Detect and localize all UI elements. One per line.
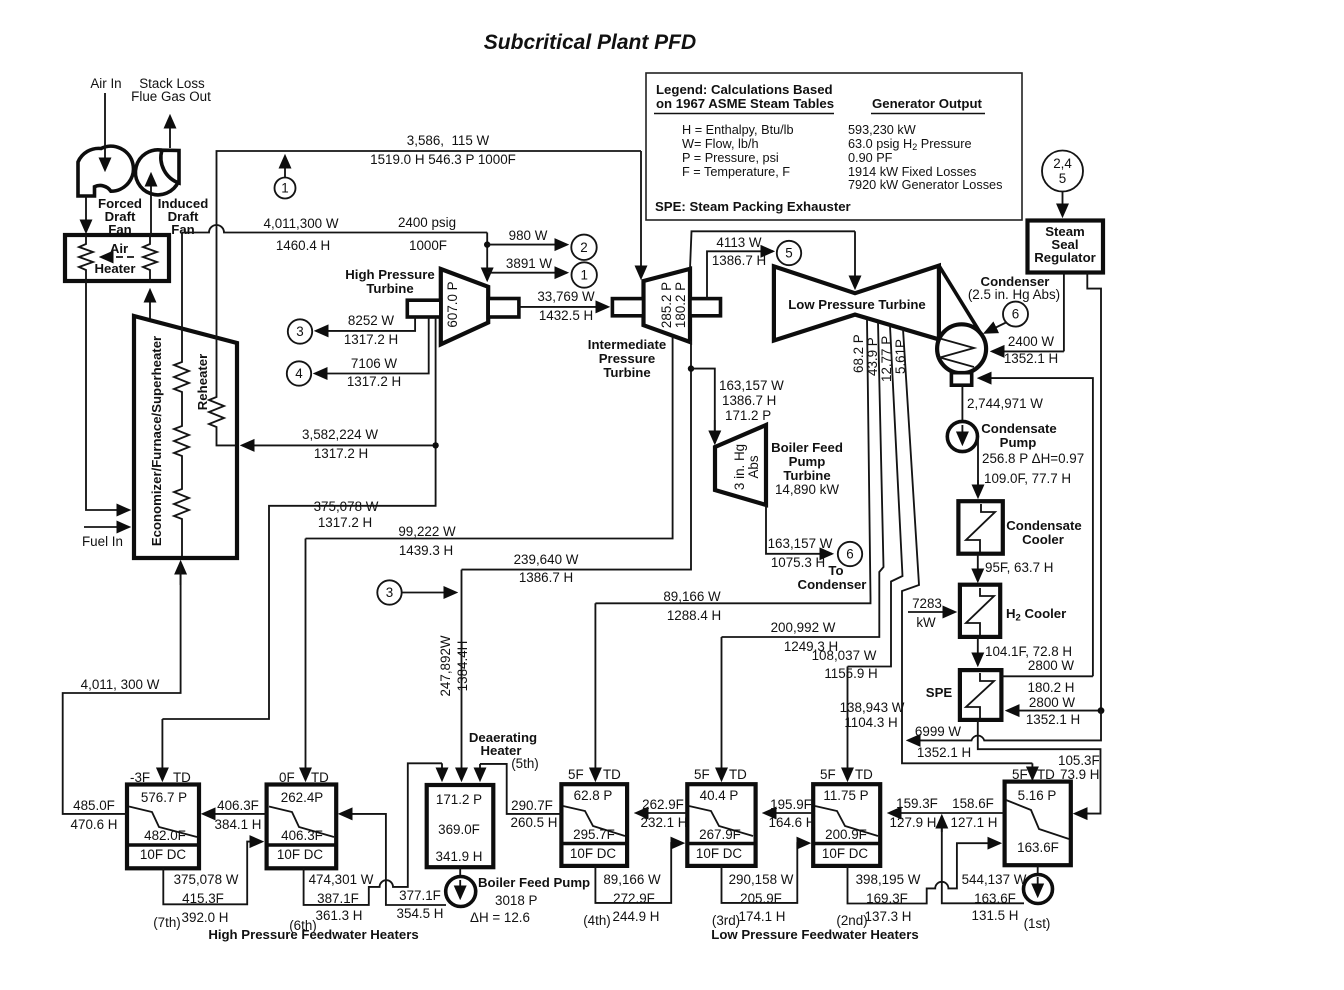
svg-text:1075.3 H: 1075.3 H <box>771 555 825 570</box>
svg-text:2800 W: 2800 W <box>1029 695 1076 710</box>
svg-text:392.0 H: 392.0 H <box>182 910 229 925</box>
svg-text:10F DC: 10F DC <box>277 847 323 862</box>
svg-text:89,166 W: 89,166 W <box>603 872 661 887</box>
svg-text:6: 6 <box>846 547 853 562</box>
svg-text:Subcritical Plant PFD: Subcritical Plant PFD <box>484 31 696 54</box>
svg-text:2400 W: 2400 W <box>1008 334 1055 349</box>
svg-text:99,222 W: 99,222 W <box>398 524 456 539</box>
svg-text:TD: TD <box>855 767 873 782</box>
svg-text:6999 W: 6999 W <box>915 724 962 739</box>
svg-text:593,230 kW: 593,230 kW <box>848 123 916 137</box>
svg-text:474,301 W: 474,301 W <box>309 872 374 887</box>
svg-text:163.6F: 163.6F <box>974 891 1016 906</box>
svg-text:10F DC: 10F DC <box>140 847 186 862</box>
svg-text:544,137 W: 544,137 W <box>962 872 1027 887</box>
svg-text:1439.3 H: 1439.3 H <box>399 543 453 558</box>
svg-text:470.6 H: 470.6 H <box>71 817 118 832</box>
svg-text:TD: TD <box>311 770 329 785</box>
svg-text:Flue Gas Out: Flue Gas Out <box>131 89 211 104</box>
svg-text:1317.2 H: 1317.2 H <box>344 332 398 347</box>
svg-text:P = Pressure, psi: P = Pressure, psi <box>682 151 779 165</box>
svg-text:5F: 5F <box>1012 767 1028 782</box>
svg-text:4: 4 <box>295 366 303 381</box>
svg-text:200,992 W: 200,992 W <box>771 620 836 635</box>
svg-text:10F DC: 10F DC <box>570 846 616 861</box>
svg-text:33,769 W: 33,769 W <box>537 289 595 304</box>
svg-text:290.7F: 290.7F <box>511 798 553 813</box>
svg-text:Air: Air <box>110 241 128 256</box>
svg-text:Air In: Air In <box>90 76 121 91</box>
svg-text:Low Pressure Feedwater Heaters: Low Pressure Feedwater Heaters <box>711 927 918 942</box>
svg-text:262.4P: 262.4P <box>281 790 324 805</box>
svg-text:68.2 P: 68.2 P <box>851 334 866 373</box>
svg-text:576.7 P: 576.7 P <box>141 790 187 805</box>
svg-text:1: 1 <box>281 181 288 196</box>
svg-text:TD: TD <box>603 767 621 782</box>
svg-text:Intermediate: Intermediate <box>588 337 666 352</box>
svg-text:Turbine: Turbine <box>783 468 830 483</box>
svg-text:1352.1 H: 1352.1 H <box>917 745 971 760</box>
svg-text:2: 2 <box>580 240 587 255</box>
svg-text:2800 W: 2800 W <box>1028 658 1075 673</box>
svg-text:W= Flow, lb/h: W= Flow, lb/h <box>682 137 759 151</box>
svg-text:1386.7 H: 1386.7 H <box>722 393 776 408</box>
svg-text:137.3 H: 137.3 H <box>865 909 912 924</box>
svg-text:158.6F: 158.6F <box>952 796 994 811</box>
svg-text:387.1F: 387.1F <box>317 891 359 906</box>
svg-text:Economizer/Furnace/Superheater: Economizer/Furnace/Superheater <box>149 336 164 546</box>
svg-text:1104.3 H: 1104.3 H <box>844 715 897 730</box>
svg-text:1317.2 H: 1317.2 H <box>318 515 372 530</box>
svg-text:7920 kW Generator Losses: 7920 kW Generator Losses <box>848 178 1002 192</box>
svg-text:Cooler: Cooler <box>1022 532 1064 547</box>
svg-text:3018 P: 3018 P <box>495 893 538 908</box>
svg-text:Pump: Pump <box>789 454 826 469</box>
svg-text:239,640 W: 239,640 W <box>514 552 579 567</box>
svg-text:40.4 P: 40.4 P <box>700 788 739 803</box>
svg-text:2,744,971 W: 2,744,971 W <box>967 396 1043 411</box>
svg-text:1317.2 H: 1317.2 H <box>347 374 401 389</box>
svg-text:8252 W: 8252 W <box>348 313 395 328</box>
svg-text:TD: TD <box>1037 767 1055 782</box>
svg-text:398,195 W: 398,195 W <box>856 872 921 887</box>
svg-text:Turbine: Turbine <box>366 281 413 296</box>
svg-text:159.3F: 159.3F <box>896 796 938 811</box>
svg-text:384.1 H: 384.1 H <box>215 817 262 832</box>
svg-text:(5th): (5th) <box>511 756 539 771</box>
svg-text:247,892W: 247,892W <box>438 635 453 696</box>
svg-text:1386.7 H: 1386.7 H <box>519 570 573 585</box>
svg-text:295.7F: 295.7F <box>573 827 615 842</box>
svg-text:11.75 P: 11.75 P <box>823 788 868 803</box>
svg-text:Fuel In: Fuel In <box>82 534 123 549</box>
svg-text:Condensate: Condensate <box>981 421 1056 436</box>
svg-text:267.9F: 267.9F <box>699 827 741 842</box>
svg-text:1: 1 <box>580 268 587 283</box>
svg-text:5: 5 <box>785 246 792 261</box>
svg-text:171.2 P: 171.2 P <box>436 792 482 807</box>
svg-text:(6th): (6th) <box>289 918 317 933</box>
svg-text:3,586, 115 W: 3,586, 115 W <box>407 133 490 148</box>
svg-text:2,4: 2,4 <box>1053 156 1072 171</box>
svg-text:2400 psig: 2400 psig <box>398 215 456 230</box>
svg-text:14,890 kW: 14,890 kW <box>775 482 839 497</box>
svg-text:ΔH = 12.6: ΔH = 12.6 <box>470 910 530 925</box>
svg-text:63.0 psig H2 Pressure: 63.0 psig H2 Pressure <box>848 137 972 152</box>
svg-text:205.9F: 205.9F <box>740 891 782 906</box>
svg-text:High Pressure: High Pressure <box>345 267 434 282</box>
svg-text:(7th): (7th) <box>153 915 181 930</box>
svg-text:Generator Output: Generator Output <box>872 96 983 111</box>
svg-text:TD: TD <box>729 767 747 782</box>
svg-text:127.9 H: 127.9 H <box>890 815 937 830</box>
svg-text:4,011,300 W: 4,011,300 W <box>264 216 339 231</box>
svg-text:5F: 5F <box>820 767 836 782</box>
svg-text:163,157 W: 163,157 W <box>768 536 833 551</box>
svg-text:607.0 P: 607.0 P <box>445 281 460 327</box>
svg-text:H = Enthalpy, Btu/lb: H = Enthalpy, Btu/lb <box>682 123 794 137</box>
svg-text:406.3F: 406.3F <box>217 798 259 813</box>
svg-text:174.1 H: 174.1 H <box>739 909 786 924</box>
svg-text:Legend: Calculations Based: Legend: Calculations Based <box>656 82 833 97</box>
svg-text:7106 W: 7106 W <box>351 356 398 371</box>
svg-text:73.9 H: 73.9 H <box>1060 767 1099 782</box>
svg-text:62.8 P: 62.8 P <box>574 788 613 803</box>
svg-text:0F: 0F <box>279 770 295 785</box>
svg-text:138,943 W: 138,943 W <box>840 700 905 715</box>
svg-text:1914 kW Fixed Losses: 1914 kW Fixed Losses <box>848 165 976 179</box>
svg-text:To: To <box>828 563 843 578</box>
svg-text:95F, 63.7 H: 95F, 63.7 H <box>985 560 1053 575</box>
svg-text:Boiler Feed: Boiler Feed <box>771 440 843 455</box>
svg-text:Condensate: Condensate <box>1006 518 1081 533</box>
svg-text:244.9 H: 244.9 H <box>613 909 660 924</box>
svg-text:377.1F: 377.1F <box>399 888 441 903</box>
svg-text:262.9F: 262.9F <box>642 797 684 812</box>
svg-text:260.5 H: 260.5 H <box>511 815 558 830</box>
svg-text:180.2 H: 180.2 H <box>1028 680 1075 695</box>
svg-text:TD: TD <box>173 770 191 785</box>
svg-text:1519.0 H 546.3 P 1000F: 1519.0 H 546.3 P 1000F <box>370 152 516 167</box>
svg-text:3: 3 <box>386 585 393 600</box>
svg-text:1352.1 H: 1352.1 H <box>1004 351 1058 366</box>
svg-text:5F: 5F <box>568 767 584 782</box>
svg-text:290,158 W: 290,158 W <box>729 872 794 887</box>
svg-text:1352.1 H: 1352.1 H <box>1026 712 1080 727</box>
svg-text:3 in. Hg: 3 in. Hg <box>732 444 747 490</box>
svg-text:163,157 W: 163,157 W <box>719 378 784 393</box>
svg-text:131.5 H: 131.5 H <box>972 908 1019 923</box>
svg-text:(2.5 in. Hg Abs): (2.5 in. Hg Abs) <box>968 287 1060 302</box>
svg-text:4113 W: 4113 W <box>716 235 762 250</box>
svg-text:(2nd): (2nd) <box>836 913 867 928</box>
svg-text:1432.5 H: 1432.5 H <box>539 308 593 323</box>
svg-text:(3rd): (3rd) <box>712 913 740 928</box>
svg-text:Heater: Heater <box>94 261 135 276</box>
svg-text:485.0F: 485.0F <box>73 798 115 813</box>
svg-text:Low Pressure Turbine: Low Pressure Turbine <box>788 297 926 312</box>
svg-text:1155.9 H: 1155.9 H <box>824 666 877 681</box>
svg-text:10F DC: 10F DC <box>822 846 868 861</box>
svg-text:180.2 P: 180.2 P <box>673 282 688 328</box>
svg-text:7283: 7283 <box>912 596 942 611</box>
svg-text:200.9F: 200.9F <box>825 827 867 842</box>
svg-text:10F DC: 10F DC <box>696 846 742 861</box>
svg-text:272.9F: 272.9F <box>613 891 655 906</box>
svg-text:109.0F, 77.7 H: 109.0F, 77.7 H <box>984 471 1071 486</box>
svg-text:369.0F: 369.0F <box>438 822 480 837</box>
svg-text:375,078 W: 375,078 W <box>314 499 379 514</box>
svg-text:108,037 W: 108,037 W <box>812 648 877 663</box>
svg-text:341.9 H: 341.9 H <box>436 849 483 864</box>
svg-text:354.5 H: 354.5 H <box>397 906 444 921</box>
svg-text:1460.4 H: 1460.4 H <box>276 238 330 253</box>
svg-text:195.9F: 195.9F <box>770 797 812 812</box>
svg-text:171.2 P: 171.2 P <box>725 408 771 423</box>
svg-text:104.1F, 72.8 H: 104.1F, 72.8 H <box>985 644 1072 659</box>
svg-text:SPE: Steam Packing Exhauster: SPE: Steam Packing Exhauster <box>655 199 851 214</box>
svg-text:482.0F: 482.0F <box>144 828 186 843</box>
svg-text:Abs: Abs <box>746 455 761 478</box>
svg-text:(1st): (1st) <box>1024 916 1051 931</box>
svg-text:1288.4 H: 1288.4 H <box>667 608 721 623</box>
svg-text:5: 5 <box>1059 171 1066 186</box>
svg-text:3: 3 <box>296 324 303 339</box>
svg-text:406.3F: 406.3F <box>281 828 323 843</box>
svg-text:H2 Cooler: H2 Cooler <box>1006 606 1066 624</box>
svg-text:361.3 H: 361.3 H <box>316 908 363 923</box>
svg-text:5F: 5F <box>694 767 710 782</box>
svg-text:1317.2 H: 1317.2 H <box>314 446 368 461</box>
svg-text:232.1 H: 232.1 H <box>641 815 688 830</box>
svg-text:Reheater: Reheater <box>195 354 210 410</box>
svg-text:SPE: SPE <box>926 685 953 700</box>
svg-text:kW: kW <box>916 615 936 630</box>
svg-text:105.3F: 105.3F <box>1058 753 1100 768</box>
svg-text:127.1 H: 127.1 H <box>951 815 998 830</box>
svg-text:Fan: Fan <box>171 222 194 237</box>
svg-text:4,011, 300 W: 4,011, 300 W <box>81 677 160 692</box>
svg-text:980 W: 980 W <box>509 228 548 243</box>
svg-text:Turbine: Turbine <box>603 365 650 380</box>
svg-text:285.2 P: 285.2 P <box>659 282 674 328</box>
svg-text:3,582,224 W: 3,582,224 W <box>302 427 378 442</box>
svg-text:on 1967 ASME Steam Tables: on 1967 ASME Steam Tables <box>656 96 834 111</box>
svg-text:Regulator: Regulator <box>1034 250 1096 265</box>
svg-text:0.90 PF: 0.90 PF <box>848 151 893 165</box>
svg-text:256.8 P ΔH=0.97: 256.8 P ΔH=0.97 <box>982 451 1084 466</box>
svg-text:Pump: Pump <box>1000 435 1037 450</box>
svg-text:169.3F: 169.3F <box>866 891 908 906</box>
svg-text:-3F: -3F <box>130 770 150 785</box>
svg-text:Boiler Feed Pump: Boiler Feed Pump <box>478 875 590 890</box>
svg-text:375,078 W: 375,078 W <box>174 872 239 887</box>
svg-text:1000F: 1000F <box>409 238 447 253</box>
svg-text:89,166 W: 89,166 W <box>663 589 721 604</box>
svg-text:Pressure: Pressure <box>599 351 655 366</box>
svg-text:(4th): (4th) <box>583 913 611 928</box>
svg-text:Condenser: Condenser <box>798 577 867 592</box>
svg-text:1386.7 H: 1386.7 H <box>712 253 766 268</box>
svg-text:415.3F: 415.3F <box>182 891 224 906</box>
svg-text:6: 6 <box>1012 307 1019 322</box>
svg-text:3891 W: 3891 W <box>506 256 553 271</box>
svg-text:1384.4H: 1384.4H <box>455 641 470 692</box>
svg-text:163.6F: 163.6F <box>1017 840 1059 855</box>
svg-text:164.6 H: 164.6 H <box>769 815 816 830</box>
svg-text:5.16 P: 5.16 P <box>1018 788 1057 803</box>
svg-text:F = Temperature, F: F = Temperature, F <box>682 165 790 179</box>
